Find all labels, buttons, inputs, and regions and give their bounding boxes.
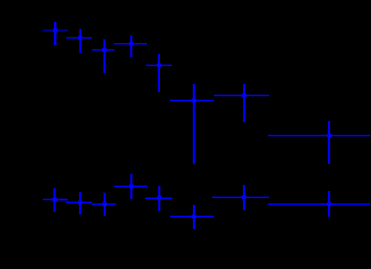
data point 14 (bottom series, bin 6): [170, 205, 214, 229]
data point 8 (top series, bin 8): [268, 121, 370, 164]
data point 15 (bottom series, bin 7): [212, 185, 269, 210]
data point 1 (top series, bin 1): [42, 22, 68, 45]
data point 13 (bottom series, bin 5): [145, 186, 172, 211]
data point 12 (bottom series, bin 4): [114, 174, 147, 199]
data point 16 (bottom series, bin 8): [268, 191, 370, 217]
data point 7 (top series, bin 7): [214, 84, 269, 122]
data point 5 (top series, bin 5): [146, 54, 172, 92]
data point 10 (bottom series, bin 2): [66, 192, 92, 214]
data point 3 (top series, bin 3): [92, 39, 115, 73]
data point 2 (top series, bin 2): [66, 29, 92, 53]
data point 11 (bottom series, bin 3): [92, 193, 116, 216]
data point 6 (top series, bin 6): [170, 84, 214, 164]
data point 4 (top series, bin 4): [114, 35, 147, 57]
data point 9 (bottom series, bin 1): [43, 188, 69, 212]
